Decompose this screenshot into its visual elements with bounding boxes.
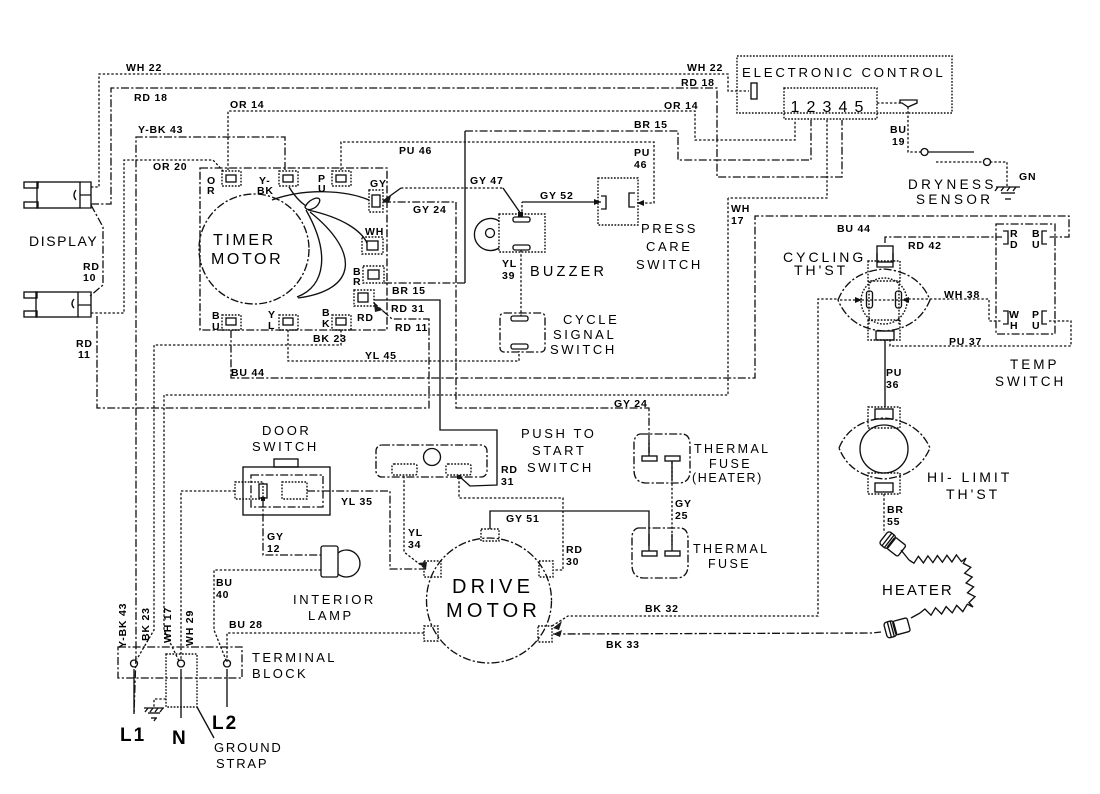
heater terminal plug lower [883,617,910,639]
svg-text:YL 35: YL 35 [341,496,373,508]
svg-text:HEATER: HEATER [882,582,954,599]
svg-text:WH 22: WH 22 [687,62,723,74]
wire BK 32 (drive motor to cycling thermostat) [552,299,839,626]
svg-text:R: R [353,276,361,288]
svg-text:U: U [1032,320,1040,332]
display connector upper [24,182,91,208]
wire GY 52 (buzzer to press care switch) [522,199,601,216]
svg-text:SIGNAL: SIGNAL [553,327,616,342]
heater terminal plug upper [879,531,907,558]
wire label GY 12 stacked [267,531,284,555]
terminal block [118,647,337,681]
svg-text:RD 31: RD 31 [391,303,425,315]
timer terminal YL [268,309,298,332]
wire label PU 46 right stacked [634,147,650,171]
svg-text:RD 42: RD 42 [908,240,942,252]
svg-text:THERMAL: THERMAL [694,442,771,456]
svg-text:DRIVE: DRIVE [452,576,534,598]
wire BU 44 (timer BU terminal to temp switch BU terminal) [231,216,1069,378]
svg-text:U: U [1032,239,1040,251]
wire label RD 30 stacked [566,544,583,568]
svg-text:MOTOR: MOTOR [211,251,283,268]
svg-text:(HEATER): (HEATER) [692,471,763,485]
ground symbol GN [995,171,1036,199]
svg-text:12: 12 [267,543,280,555]
svg-text:SENSOR: SENSOR [916,192,993,207]
wire RD 10 (display top connector to display lower connector) [90,205,103,296]
wire GY 12 (door switch to interior lamp) [263,499,321,555]
svg-text:34: 34 [408,539,421,551]
wire RD 30 (push-to-start switch to drive motor) [459,477,563,570]
svg-text:N: N [172,728,186,749]
svg-text:TIMER: TIMER [213,232,276,249]
wire YL 35 (door switch to drive motor) [307,491,426,569]
timer terminal PU [318,171,351,195]
svg-text:SWITCH: SWITCH [252,439,319,454]
svg-text:GY: GY [267,531,284,543]
thermal fuse [632,528,770,578]
wire YL 45 (timer YL terminal to cycle signal switch) [288,330,519,361]
wire label RD 31 at push to start [501,464,518,488]
svg-text:PRESS: PRESS [641,221,698,236]
svg-text:RD 18: RD 18 [134,92,168,104]
timer terminal Y-BK [257,171,298,197]
svg-text:DRYNESS: DRYNESS [908,177,997,192]
timer cam trace curves [272,187,369,298]
svg-text:GY 24: GY 24 [614,398,648,410]
wire GY 51 (drive motor to thermal fuse) [490,511,649,546]
svg-text:YL 45: YL 45 [365,350,397,362]
svg-text:L1: L1 [120,725,146,746]
svg-text:36: 36 [886,379,899,391]
junction dot at push-to-start right pad [457,475,461,479]
wire BK 33 (drive motor to heater plug) [553,632,881,634]
node RD 11 label [76,338,93,361]
wire label PU 36 stacked [886,367,902,391]
svg-text:SWITCH: SWITCH [995,374,1066,389]
cycling thermostat [783,246,930,340]
wire BR 55 (hi-limit thermostat to heater plug) [883,494,885,533]
thermal fuse (heater) [634,434,771,485]
svg-text:R: R [207,185,215,197]
ground strap outline [166,654,283,771]
wire label WH 17 stacked [731,203,750,227]
electronic control box [737,56,952,113]
wire YL 39 (buzzer to cycle signal switch) [520,250,522,316]
svg-text:TH'ST: TH'ST [946,486,1000,502]
press care switch [598,178,703,272]
svg-text:OR 14: OR 14 [664,100,698,112]
wire BU 19 (control pin 5 to dryness sensor electrode) [877,103,974,152]
svg-text:U: U [212,321,220,333]
svg-text:46: 46 [634,159,647,171]
wire BU 40 (interior lamp to terminal block L2) [214,570,321,660]
junction dot at door switch GY12 tap [261,497,265,501]
timer terminal OR (pin O R) [207,171,241,197]
heater element coil [901,550,975,618]
svg-text:BU: BU [890,124,907,136]
wire RD 42 (cycling thermostat to temp switch RD terminal) [885,237,1002,243]
svg-text:GY 52: GY 52 [540,190,574,202]
cycle signal switch [500,312,619,357]
svg-text:SWITCH: SWITCH [527,460,594,475]
svg-text:BR 15: BR 15 [392,285,426,297]
svg-text:L2: L2 [212,713,238,734]
timer terminal BK [322,307,351,330]
svg-text:BU 44: BU 44 [231,367,265,379]
svg-text:BK 23: BK 23 [313,333,347,345]
svg-text:GY: GY [370,178,387,190]
wire BK 23 (timer BK terminal to terminal block L1) [137,330,341,659]
dryness sensor electrode circles [921,149,991,166]
svg-text:OR 14: OR 14 [230,99,264,111]
timer terminal RD [354,290,383,324]
node BU 19 label [890,124,907,148]
drive motor [418,529,562,663]
svg-text:BU 28: BU 28 [229,619,263,631]
svg-text:RD: RD [566,544,583,556]
svg-text:RD 18: RD 18 [681,77,715,89]
svg-text:RD 11: RD 11 [395,322,428,334]
svg-text:RD: RD [357,312,374,324]
svg-text:PU: PU [886,367,902,379]
svg-text:10: 10 [83,272,96,284]
svg-text:D: D [1010,239,1018,251]
svg-text:DISPLAY: DISPLAY [29,233,98,249]
svg-text:GROUND: GROUND [214,740,283,755]
wire WH 22 (display to electronic control) [91,74,749,187]
timer terminal WH [362,226,384,254]
wire OR 20 (display lower connector to timer OR terminal) [91,160,224,313]
timer terminal BU [212,310,241,333]
ground symbol at ground strap [144,699,166,721]
svg-text:BUZZER: BUZZER [530,264,607,280]
svg-text:INTERIOR: INTERIOR [293,592,376,607]
wire RD 31 (timer RD terminal to push-to-start switch) [374,300,497,486]
svg-text:L: L [268,320,275,332]
svg-text:3: 3 [823,99,832,116]
svg-text:PUSH TO: PUSH TO [521,426,597,441]
svg-text:1: 1 [791,99,800,116]
terminal flag BU 19 [900,100,917,107]
svg-text:BK 23: BK 23 [140,607,152,641]
svg-text:PU 46: PU 46 [399,145,432,157]
terminal block lead L1 [120,669,146,746]
svg-text:BK: BK [257,185,274,197]
push to start switch [376,426,597,477]
display connector lower [24,292,91,317]
svg-text:ELECTRONIC CONTROL: ELECTRONIC CONTROL [742,65,946,80]
node RD 10 label [83,261,100,284]
svg-text:CARE: CARE [646,239,693,254]
door switch [235,423,330,515]
wire Y-BK 43 (timer Y-BK terminal down left side to terminal block L1) [134,137,285,714]
svg-text:19: 19 [892,136,905,148]
svg-text:TEMP: TEMP [1010,357,1060,372]
dryness sensor second electrode wire to GN ground [936,162,1007,186]
svg-text:25: 25 [675,510,688,522]
svg-text:PU 37: PU 37 [949,336,982,348]
svg-text:WH 22: WH 22 [126,62,162,74]
wire label BU 40 stacked [216,577,233,601]
buzzer [474,212,607,280]
svg-text:GY 24: GY 24 [413,204,447,216]
terminal block lead L2 [212,669,238,734]
svg-text:BR: BR [887,504,904,516]
svg-text:STRAP: STRAP [216,756,268,771]
node GY 25 label [675,498,692,522]
timer terminal GY [369,178,391,212]
timer motor box [199,168,387,330]
svg-text:11: 11 [78,349,91,361]
svg-text:OR 20: OR 20 [153,161,187,173]
electronic control pin header 1 2 3 4 5 [784,88,877,119]
svg-text:BU: BU [216,577,233,589]
svg-text:30: 30 [566,556,579,568]
svg-text:SWITCH: SWITCH [636,257,703,272]
svg-text:17: 17 [731,215,744,227]
node BR 55 label [887,504,904,528]
wire WH 17 (control pin 3 down to terminal block N) [164,198,728,661]
dryness sensor name label [908,177,997,207]
electronic control input terminal [751,83,757,99]
svg-text:K: K [322,318,330,330]
svg-text:YL: YL [502,258,517,270]
hi-limit thermostat [839,407,1012,502]
svg-text:HI- LIMIT: HI- LIMIT [927,469,1012,485]
wire GY 24 (timer GY terminal to thermal fuse heater) [383,202,649,453]
svg-text:YL: YL [408,527,423,539]
svg-text:WH: WH [365,226,384,238]
interior lamp [293,546,376,623]
wire WH 38 (cycling thermostat to temp switch WH terminal) [904,299,1002,321]
svg-text:WH: WH [731,203,750,215]
svg-text:SWITCH: SWITCH [550,342,617,357]
svg-text:WH 29: WH 29 [184,610,196,646]
node YL 39 label [502,258,517,282]
svg-text:U: U [318,183,326,195]
svg-text:GY: GY [675,498,692,510]
wire BU 28 (terminal block L2 to drive motor) [227,633,425,662]
svg-text:BR 15: BR 15 [634,119,668,131]
svg-text:55: 55 [887,516,900,528]
svg-text:LAMP: LAMP [308,608,354,623]
wire WH 29 (door switch to terminal block N) [181,491,235,661]
wire WH 22 branch to control pin 3 via WH17 label column [728,120,827,198]
svg-text:CYCLE: CYCLE [563,312,619,327]
timer terminal BR [353,266,384,288]
svg-text:WH 17: WH 17 [162,607,174,643]
svg-text:TERMINAL: TERMINAL [252,650,337,665]
svg-text:START: START [532,443,586,458]
svg-text:BU 44: BU 44 [837,223,871,235]
svg-text:PU: PU [634,147,650,159]
wire PU 36 (cycling thermostat to hi-limit thermostat) [884,340,886,407]
wire RD 11 (display lower connector to timer RD terminal) [97,303,429,408]
wire GY 25 (thermal fuse to thermal fuse heater) [671,462,673,545]
svg-text:RD: RD [501,464,518,476]
svg-text:5: 5 [855,99,864,116]
svg-text:FUSE: FUSE [709,457,752,471]
svg-text:BK 32: BK 32 [645,603,679,615]
terminal block lead N [172,669,186,749]
svg-text:39: 39 [502,270,515,282]
wire BR 15 (timer BR terminal to control pin 2) [384,120,811,283]
svg-text:FUSE: FUSE [708,557,751,571]
wire PU 37 (temp switch PU terminal to cycling thermostat) [890,321,1071,346]
svg-text:Y-BK 43: Y-BK 43 [117,603,129,648]
svg-text:31: 31 [501,476,514,488]
wire label YL 34 stacked [408,527,423,551]
svg-text:H: H [1010,320,1018,332]
svg-text:WH 38: WH 38 [944,289,980,301]
temp switch box [995,224,1066,389]
svg-text:GY 51: GY 51 [506,513,540,525]
svg-text:GY 47: GY 47 [470,175,504,187]
wire PU 46 (timer PU terminal to press care switch) [341,142,654,206]
svg-text:BLOCK: BLOCK [252,666,308,681]
svg-text:2: 2 [807,99,816,116]
svg-text:TH'ST: TH'ST [794,262,848,278]
svg-text:4: 4 [839,99,848,116]
svg-text:40: 40 [216,589,229,601]
wire GY 47 (timer GY terminal to buzzer) [383,188,521,214]
svg-text:MOTOR: MOTOR [446,600,541,622]
wire RD 18 (display to control pin 4) [91,88,842,204]
svg-text:Y-BK 43: Y-BK 43 [138,124,183,136]
svg-text:BK 33: BK 33 [606,639,640,651]
wire YL 34 (push-to-start switch to drive motor) [404,476,426,569]
wire OR 14 (timer OR terminal to control pin 1) [228,111,795,170]
svg-text:DOOR: DOOR [262,423,311,438]
svg-text:THERMAL: THERMAL [693,542,770,556]
svg-text:GN: GN [1019,171,1036,183]
